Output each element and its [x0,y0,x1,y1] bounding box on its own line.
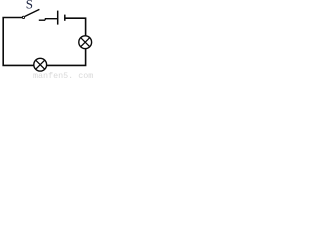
svg-text:manfen5. com: manfen5. com [33,71,93,80]
switch S pivot circle [22,16,24,18]
lamp L2 circle (bottom) [34,58,47,71]
lamp L1 cross [81,38,90,47]
lamp L2 cross [36,60,45,69]
lamp L1 circle (right) [79,36,92,49]
wire: lamp L1 bottom, down and left along bottom to lamp L2 [46,49,85,66]
wire: left side loop (top-left to pivot, down left side, along bottom to lamp L2) [3,18,34,66]
wire: contact to battery positive plate [45,18,57,20]
jog between contact and wire [44,19,47,21]
switch S fixed contact stub [39,19,45,21]
wire: battery to top-right corner down to lamp L1 [66,18,86,36]
svg-text:S: S [26,0,33,12]
switch S blade (open) [25,9,40,16]
battery short plate (-) [64,15,66,21]
battery long plate (+) [57,11,59,25]
background [0,0,96,80]
